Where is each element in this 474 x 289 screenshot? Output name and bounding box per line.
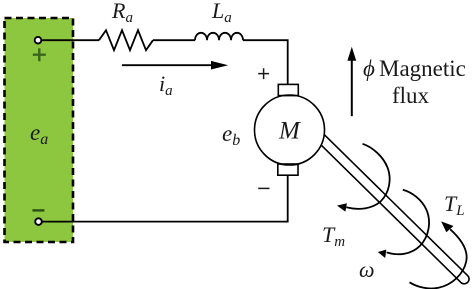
flux arrow [347, 47, 356, 117]
brush top [278, 84, 298, 95]
svg-text:Ra: Ra [111, 0, 133, 26]
label phi magnetic flux [363, 56, 466, 108]
svg-text:Tm: Tm [322, 222, 345, 250]
svg-text:La: La [211, 0, 232, 26]
torque arrow Tm [337, 144, 390, 212]
svg-text:ia: ia [159, 71, 173, 99]
svg-text:M: M [278, 118, 301, 145]
load torque arrow TL [410, 221, 467, 288]
terminal plus [35, 37, 42, 44]
wire La to motor [243, 40, 288, 84]
svg-text:ω: ω [359, 257, 375, 282]
svg-text:Magnetic: Magnetic [379, 56, 466, 81]
voltage source box e_a [5, 18, 74, 242]
resistor Ra [99, 30, 153, 50]
wire Ra to La [153, 39, 195, 41]
svg-text:TL: TL [444, 191, 465, 219]
svg-text:eb: eb [222, 121, 240, 149]
inductor La [195, 33, 243, 40]
motor M [255, 95, 325, 165]
polarity minus (source) [32, 209, 44, 211]
shaft [312, 130, 471, 286]
terminal minus [35, 218, 42, 225]
brush bottom [278, 164, 298, 175]
speed arrow omega [378, 190, 429, 258]
polarity minus (motor) [258, 187, 269, 189]
wire bottom [39, 175, 288, 222]
wire top [38, 39, 99, 41]
polarity plus (source) [33, 48, 46, 61]
svg-text:flux: flux [392, 83, 430, 108]
polarity plus (motor) [258, 68, 269, 79]
svg-text:ϕ: ϕ [363, 56, 375, 81]
current arrow ia [122, 61, 228, 70]
